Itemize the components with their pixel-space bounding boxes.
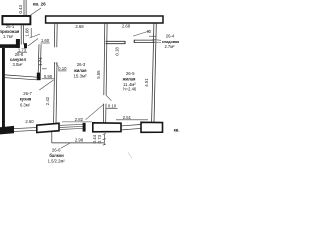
svg-text:h=2.46: h=2.46 (123, 87, 137, 92)
wall top exterior (long) (46, 16, 163, 23)
leader 1.60 (30, 34, 41, 38)
speck mark (128, 153, 132, 159)
wall bathroom east (double) (38, 44, 41, 72)
wall storage south stub east (double) (134, 40, 154, 43)
svg-text:2.98: 2.98 (75, 137, 84, 142)
svg-text:1.08: 1.08 (24, 28, 29, 37)
leader across room (86, 104, 104, 120)
door jamb bathroom SE (37, 73, 41, 81)
svg-text:1.7м²: 1.7м² (3, 34, 14, 39)
svg-text:0.10: 0.10 (108, 104, 117, 109)
svg-text:2.42: 2.42 (45, 96, 50, 105)
svg-text:2.7м²: 2.7м² (164, 44, 175, 49)
svg-text:5.55: 5.55 (96, 70, 101, 79)
svg-text:кухня: кухня (20, 96, 32, 101)
tick (42, 68, 47, 70)
svg-text:4.51: 4.51 (144, 78, 149, 87)
svg-text:0.43: 0.43 (18, 5, 23, 14)
wall east exterior (double) (152, 23, 157, 122)
wall post (16, 39, 20, 48)
window kitchen (14, 128, 37, 132)
wall below hallway rect (double) (21, 25, 23, 45)
svg-text:0.73: 0.73 (97, 134, 102, 143)
leader 0.90 (39, 80, 53, 90)
leader 0.10 b (106, 95, 112, 101)
svg-text:кв.: кв. (174, 128, 180, 133)
svg-text:2.82: 2.82 (75, 117, 84, 122)
leader storage (133, 31, 151, 36)
svg-text:2.60: 2.60 (25, 119, 34, 124)
window balcony door (59, 125, 83, 130)
wall partition kitchen/room lower (double) (54, 62, 57, 124)
svg-text:26-5: 26-5 (126, 71, 135, 76)
door leaf bathroom (28, 39, 38, 47)
svg-text:2.68: 2.68 (75, 24, 84, 29)
jamb post (83, 123, 86, 132)
svg-text:0.90: 0.90 (44, 74, 53, 79)
wall partition hall/kitchen upper (double) (54, 23, 57, 47)
svg-text:6.3м²: 6.3м² (20, 102, 31, 107)
svg-text:2.68: 2.68 (122, 24, 131, 29)
wall partition center upper (double) (104, 23, 107, 95)
door jamb (24, 43, 27, 48)
leader balcony (61, 143, 70, 148)
wall south pier east (141, 122, 163, 132)
wall storage south stub west (double) (106, 41, 126, 44)
svg-text:15.3м²: 15.3м² (73, 74, 87, 79)
dim line with ticks (103, 133, 106, 145)
wall west exterior black (2, 48, 5, 127)
svg-text:0.10: 0.10 (58, 66, 67, 71)
svg-text:кв. 26: кв. 26 (33, 2, 46, 7)
svg-text:26-4: 26-4 (166, 34, 175, 39)
wall hallway exterior (top-left thick rect) (2, 16, 30, 24)
svg-text:1.60: 1.60 (41, 38, 50, 43)
balcony outline (52, 132, 105, 143)
dim line 1.08 (30, 28, 32, 37)
wall bathroom south (double) (5, 75, 37, 80)
svg-text:балкон: балкон (49, 153, 64, 158)
wall south pier 2 (37, 123, 59, 132)
wall stairwell stub above entry (24, 0, 26, 16)
wall bathroom north black bar (0, 44, 20, 48)
svg-text:жилая: жилая (73, 68, 87, 73)
svg-text:1.5/2.2м²: 1.5/2.2м² (48, 159, 66, 164)
svg-text:1.74: 1.74 (38, 57, 43, 66)
svg-text:3.0м²: 3.0м² (12, 62, 23, 67)
wall south pier west solid (0, 126, 14, 134)
svg-text:26-3: 26-3 (77, 62, 86, 67)
wall partition center lower (double) (103, 104, 106, 123)
wall south pier 3 (93, 123, 121, 132)
svg-text:0.18: 0.18 (114, 47, 119, 56)
svg-text:2.51: 2.51 (123, 115, 132, 120)
door leaf entry (30, 8, 41, 16)
window room 26-5 (121, 125, 141, 130)
